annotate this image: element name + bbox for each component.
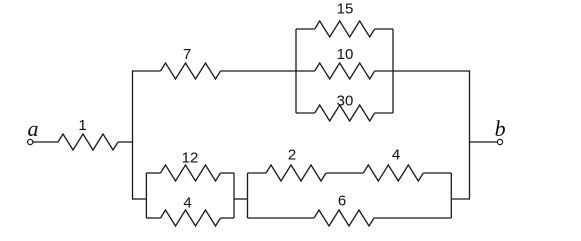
wire bottom branch stub 2 <box>234 198 248 200</box>
resistor R4a <box>161 210 221 226</box>
node block A left vertical wire <box>145 173 147 218</box>
terminal a <box>28 139 33 144</box>
wire bottom branch stub 3 <box>451 198 469 200</box>
wire 4-row right (block A) <box>221 217 235 219</box>
svg-text:b: b <box>495 116 506 141</box>
resistor R10 <box>315 63 375 79</box>
svg-text:6: 6 <box>338 192 346 209</box>
node left junction vertical wire <box>132 70 134 199</box>
wire 10-row right to right junction <box>375 70 470 72</box>
resistor R7 <box>161 63 221 79</box>
wire 30-row left <box>296 112 315 114</box>
wire 2-row lead <box>248 172 267 174</box>
svg-text:a: a <box>28 116 39 141</box>
wire 10-row left <box>296 70 315 72</box>
wire 30-row right <box>375 112 393 114</box>
wire R7 to parallel block <box>221 70 297 72</box>
wire 6-row left <box>248 217 315 219</box>
resistor R4b <box>363 165 423 181</box>
resistor R2 <box>266 165 326 181</box>
wire 12-row left <box>146 172 160 174</box>
terminal b <box>497 139 502 144</box>
svg-text:15: 15 <box>337 1 354 18</box>
node parallel block right vertical wire <box>392 29 394 113</box>
node block B right vertical wire <box>450 173 452 218</box>
resistor R30 <box>315 105 375 121</box>
svg-text:12: 12 <box>182 150 199 167</box>
node block A right vertical wire <box>233 173 235 218</box>
wire R1 to left junction <box>118 141 133 143</box>
wire 15-row right <box>375 28 393 30</box>
svg-text:30: 30 <box>337 92 354 109</box>
wire R4b to block B right <box>423 172 451 174</box>
svg-text:1: 1 <box>78 117 86 134</box>
resistor R1 <box>58 134 118 150</box>
svg-text:2: 2 <box>288 147 296 164</box>
resistor R15 <box>315 21 375 37</box>
svg-text:10: 10 <box>337 46 354 63</box>
svg-text:4: 4 <box>183 195 191 212</box>
svg-text:7: 7 <box>183 46 191 63</box>
resistor R6 <box>314 210 374 226</box>
node right junction vertical wire <box>469 70 471 199</box>
node block B left vertical wire <box>247 173 249 218</box>
wire b lead <box>470 141 498 143</box>
wire 4-row left (block A) <box>146 217 160 219</box>
wire a lead <box>33 141 58 143</box>
svg-text:4: 4 <box>392 147 400 164</box>
wire between R2 and R4b <box>326 172 363 174</box>
node parallel block left vertical wire <box>295 29 297 113</box>
wire top branch lead <box>133 70 161 72</box>
wire 6-row right <box>374 217 451 219</box>
wire bottom branch stub 1 <box>133 198 147 200</box>
wire 12-row right <box>221 172 235 174</box>
wire 15-row left <box>296 28 315 30</box>
resistor R12 <box>161 165 221 181</box>
